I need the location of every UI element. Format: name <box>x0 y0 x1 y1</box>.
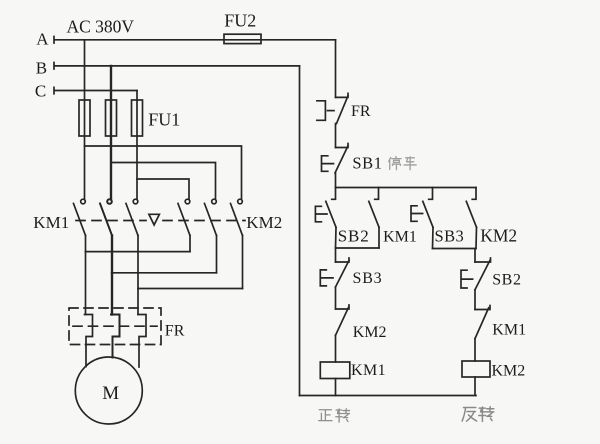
wire A drop through fuse 1 <box>84 40 86 199</box>
wire KM1 aux bottom <box>378 227 380 248</box>
svg-text:FU2: FU2 <box>224 11 256 31</box>
wire rejoin rev pair <box>433 248 477 250</box>
wire control drop from FU2 <box>335 40 337 98</box>
svg-text:SB3: SB3 <box>435 226 465 245</box>
contact KM2 aux (NO, seal-in) <box>466 188 476 228</box>
svg-text:FU1: FU1 <box>148 109 180 129</box>
contact KM1 interlock (NC) <box>475 306 490 339</box>
fuse FU1 element 3 <box>132 100 143 136</box>
wire SB2 bottom <box>335 227 338 248</box>
svg-text:KM1: KM1 <box>383 228 417 245</box>
fuse FU1 element 1 <box>79 100 90 136</box>
wire to KM1 coil <box>335 335 337 362</box>
fuse FU1 element 2 <box>106 100 117 136</box>
wire W down to FR <box>137 289 139 315</box>
wire V down to FR <box>111 273 113 315</box>
coil KM2 <box>462 361 490 377</box>
svg-text:SB3: SB3 <box>353 270 383 287</box>
FR heater element 1 <box>85 315 93 367</box>
wire bottom bus <box>300 395 477 397</box>
wire SB1 to bus <box>335 173 337 188</box>
mechanical linkage dashed line (right) <box>163 220 245 222</box>
wire fwd branch to SB3 NC <box>335 248 337 262</box>
svg-text:B: B <box>36 58 47 77</box>
svg-text:FR: FR <box>165 323 185 340</box>
contactor KM2 main contact 4 <box>178 199 190 235</box>
wire contact4 down <box>189 236 191 252</box>
svg-text:C: C <box>35 81 46 100</box>
pushbutton SB1 stop (NC) <box>322 144 349 174</box>
wire SB3 bottom <box>432 227 435 248</box>
svg-text:KM2: KM2 <box>480 225 517 245</box>
contactor KM1 main contact 2 <box>100 199 112 235</box>
svg-text:KM2: KM2 <box>246 213 282 232</box>
wire crossover C to KM2 contact 4 <box>137 179 189 199</box>
svg-text:SB2: SB2 <box>338 226 370 245</box>
wire phase A <box>54 37 336 44</box>
svg-text:A: A <box>36 30 49 49</box>
fuse FU2 <box>224 34 261 43</box>
wire to KM1 NC <box>474 290 476 310</box>
svg-text:SB1: SB1 <box>352 154 382 173</box>
FR heater element 2 <box>111 315 120 358</box>
wire B drop through fuse 2 <box>110 66 112 199</box>
svg-text:KM2: KM2 <box>492 362 526 379</box>
pushbutton SB3 interlock (NC) <box>320 258 349 287</box>
wire U down to FR <box>85 252 87 315</box>
wire FR to SB1 <box>335 124 337 148</box>
wire left rail <box>299 66 301 396</box>
svg-text:SB2: SB2 <box>492 272 521 289</box>
FR linkage dashed line <box>73 325 157 327</box>
wire contact2 down <box>111 236 113 273</box>
wire to KM2 NC <box>335 287 337 309</box>
wire C drop through fuse 3 <box>136 91 138 199</box>
svg-text:AC 380V: AC 380V <box>67 16 135 36</box>
motor M circle <box>75 357 142 424</box>
wire contact1 down <box>85 236 87 252</box>
svg-text:M: M <box>102 383 119 404</box>
thermal contact FR (NC) <box>317 93 348 123</box>
wire contact3 down <box>137 236 139 289</box>
wire join U (contacts 1+4) <box>86 251 191 253</box>
wire crossover A to KM2 contact 6 <box>85 146 242 199</box>
wire top bus of branches <box>336 187 477 189</box>
wire KM1 coil to bottom bus <box>335 379 337 396</box>
wire crossover B to KM2 contact 5 <box>111 163 216 199</box>
coil KM1 <box>320 362 350 379</box>
svg-text:KM1: KM1 <box>33 213 69 232</box>
label forward (Chinese) <box>319 409 350 422</box>
pushbutton SB2 interlock (NC) <box>461 258 491 290</box>
wire contact6 down <box>242 236 244 289</box>
label reverse (Chinese) <box>462 407 494 422</box>
label stop (Chinese) <box>389 157 417 170</box>
svg-text:FR: FR <box>351 103 371 120</box>
pushbutton SB3 start-rev (NO) <box>411 188 433 228</box>
wire contact5 down <box>216 236 218 273</box>
contactor KM1 main contact 1 <box>74 199 86 235</box>
contactor KM2 main contact 6 <box>231 199 243 235</box>
mechanical linkage dashed line (left) <box>76 220 146 222</box>
wire phase C <box>54 87 137 94</box>
contactor KM2 main contact 5 <box>205 199 217 235</box>
wire phase B <box>54 63 300 70</box>
wire rev branch to SB2 NC <box>474 249 476 263</box>
wire to KM2 coil <box>474 339 476 361</box>
contact KM1 aux (NO, seal-in) <box>369 188 379 228</box>
wire rejoin fwd pair <box>336 247 380 249</box>
wire join V (contacts 2+5) <box>112 272 217 274</box>
wire KM2 aux bottom <box>475 227 478 248</box>
wire join W (contacts 3+6) <box>138 288 243 290</box>
svg-text:KM1: KM1 <box>492 322 526 339</box>
svg-text:KM2: KM2 <box>353 324 387 341</box>
thermal relay FR dashed enclosure <box>69 308 161 345</box>
svg-text:KM1: KM1 <box>351 362 386 379</box>
contactor KM1 main contact 3 <box>126 199 138 235</box>
wire KM2 coil to bottom bus <box>474 377 476 396</box>
pushbutton SB2 start-fwd (NO) <box>315 188 336 228</box>
contact KM2 interlock (NC) <box>336 305 350 335</box>
FR heater element 3 <box>138 315 146 368</box>
linkage actuator triangle <box>149 214 160 225</box>
